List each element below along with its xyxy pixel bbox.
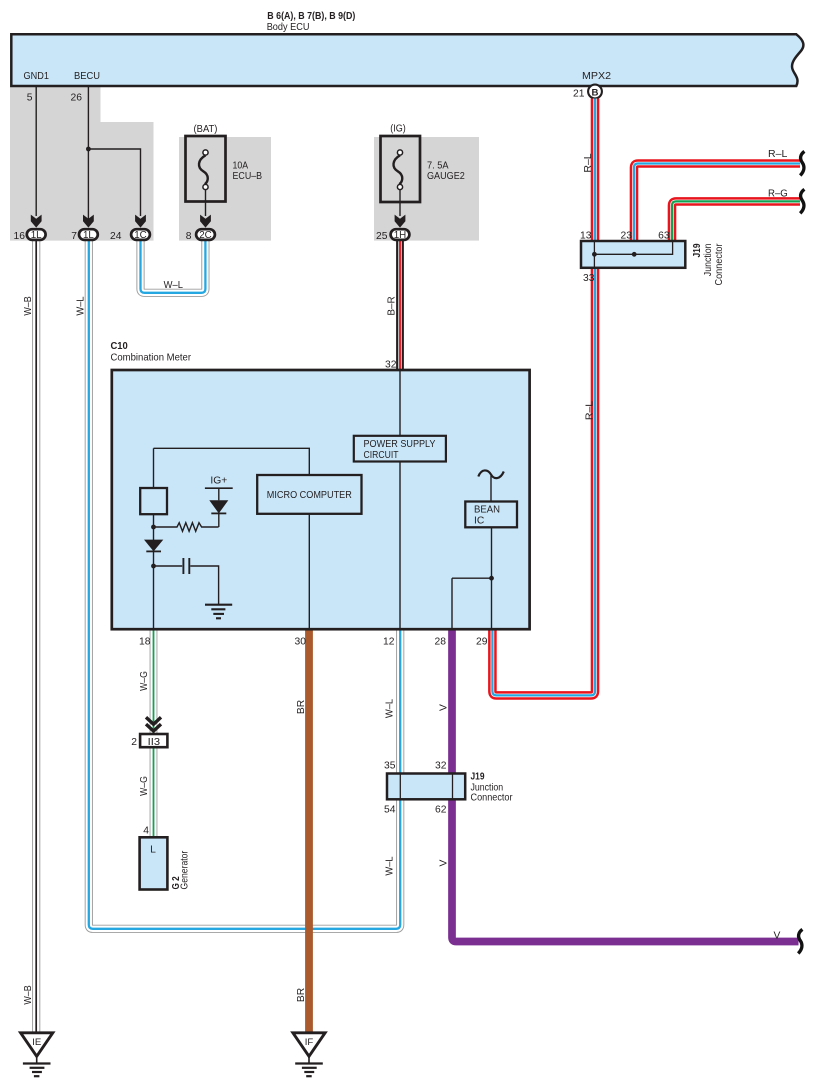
wire B-R from 1H to meter pin 32 xyxy=(396,240,404,370)
svg-text:POWER SUPPLY: POWER SUPPLY xyxy=(364,439,436,450)
junction connector J19 lower box xyxy=(387,774,465,800)
wire branch BECU to 1C xyxy=(88,149,140,216)
arrowhead into 1L(16) xyxy=(31,215,42,228)
svg-text:GND1: GND1 xyxy=(24,71,50,82)
svg-text:R–G: R–G xyxy=(768,189,788,200)
wire break V right edge xyxy=(798,929,802,953)
wire GND1 pin5 to 1L xyxy=(35,87,37,216)
arrowhead into 2C(8) xyxy=(200,215,211,228)
svg-text:(IG): (IG) xyxy=(390,124,406,135)
wire BR meter pin30 to ground IF xyxy=(305,630,313,1032)
node B (MPX2 connector circle) xyxy=(588,85,602,99)
svg-text:V: V xyxy=(439,704,450,711)
connector oval 1C(24) xyxy=(131,229,150,240)
ground IE xyxy=(21,1033,53,1057)
svg-text:R–L: R–L xyxy=(584,401,595,421)
arrowhead into 1H(25) xyxy=(395,215,406,228)
connector oval 1H(25) xyxy=(391,229,410,240)
connector II3 box xyxy=(140,734,167,747)
wire R-L from J19 pin23 to right edge xyxy=(634,164,800,242)
internal wire BEAN IC to pins 28/29 xyxy=(491,527,493,629)
svg-text:29: 29 xyxy=(476,637,488,648)
connector oval 2C(8) xyxy=(196,229,215,240)
svg-text:63: 63 xyxy=(658,231,670,242)
svg-text:B–R: B–R xyxy=(386,296,397,315)
ground inside meter xyxy=(205,604,232,606)
wire fuse ECU-B to 2C xyxy=(205,190,207,216)
svg-text:W–G: W–G xyxy=(139,776,150,796)
svg-text:J19: J19 xyxy=(692,243,703,257)
fuse ECU-B box xyxy=(186,136,226,202)
fuse GAUGE2 box xyxy=(381,136,421,202)
svg-text:21: 21 xyxy=(573,89,585,100)
junction dot capacitor xyxy=(151,564,156,569)
wire break R-L right edge xyxy=(800,151,804,175)
svg-text:V: V xyxy=(774,931,781,942)
internal wire lamp to pin18 xyxy=(153,514,155,629)
svg-text:IC: IC xyxy=(474,515,485,526)
svg-text:BEAN: BEAN xyxy=(474,505,500,516)
svg-text:W–L: W–L xyxy=(164,280,184,291)
J19 upper internal bus xyxy=(594,241,672,254)
junction dot J19 pin13 xyxy=(592,252,597,257)
svg-text:IG+: IG+ xyxy=(210,476,227,487)
power supply circuit box xyxy=(354,436,446,462)
svg-text:1L: 1L xyxy=(31,230,42,241)
svg-text:BECU: BECU xyxy=(74,71,100,82)
IG+ rail bar xyxy=(205,487,233,489)
arrowhead into 1L(7) xyxy=(83,215,94,228)
svg-text:25: 25 xyxy=(376,231,388,242)
svg-text:30: 30 xyxy=(295,637,307,648)
generator G2 box xyxy=(140,837,168,889)
fuse GAUGE2 element xyxy=(393,155,402,184)
svg-text:2C: 2C xyxy=(199,230,212,241)
svg-text:16: 16 xyxy=(14,231,26,242)
svg-text:W–L: W–L xyxy=(75,296,86,316)
svg-text:32: 32 xyxy=(385,360,397,371)
junction dot lamp/diode xyxy=(151,525,156,530)
svg-text:54: 54 xyxy=(384,805,396,816)
svg-text:1L: 1L xyxy=(83,230,94,241)
svg-text:12: 12 xyxy=(383,637,395,648)
svg-text:W–L: W–L xyxy=(385,699,396,719)
svg-text:V: V xyxy=(439,859,450,866)
svg-text:Body ECU: Body ECU xyxy=(267,22,310,33)
svg-text:IF: IF xyxy=(305,1037,314,1048)
svg-text:Junction: Junction xyxy=(703,243,714,276)
svg-text:CIRCUIT: CIRCUIT xyxy=(364,450,400,461)
svg-text:7: 7 xyxy=(71,231,77,242)
svg-text:Connector: Connector xyxy=(471,793,513,804)
svg-text:R–L: R–L xyxy=(583,153,594,173)
svg-text:J19: J19 xyxy=(471,772,485,783)
svg-text:Combination Meter: Combination Meter xyxy=(111,353,192,364)
J19 upper internal pass-through pin13-33 xyxy=(593,241,595,268)
internal wire micro computer to pin30 xyxy=(308,514,310,629)
svg-text:62: 62 xyxy=(435,805,447,816)
wire W-L link 1C to 2C xyxy=(141,240,206,293)
svg-text:W–B: W–B xyxy=(23,296,34,315)
svg-text:28: 28 xyxy=(435,637,447,648)
wire R-G from J19 pin63 to right edge xyxy=(672,201,800,241)
connector shading BAT fuse area xyxy=(179,137,271,241)
connector oval 1L(16) xyxy=(27,229,46,240)
wire R-L from node B down to J19 pin13 xyxy=(591,99,600,242)
svg-text:13: 13 xyxy=(580,231,592,242)
svg-text:(BAT): (BAT) xyxy=(194,124,218,135)
svg-text:BR: BR xyxy=(296,988,307,1002)
wire fuse GAUGE2 to 1H xyxy=(399,190,401,216)
diode D1 xyxy=(218,488,220,500)
wire W-B from 1L to ground IE xyxy=(32,240,40,1032)
svg-text:L: L xyxy=(150,844,156,855)
svg-text:BR: BR xyxy=(296,700,307,714)
svg-text:B 6(A), B 7(B), B 9(D): B 6(A), B 7(B), B 9(D) xyxy=(267,11,355,22)
svg-text:W–L: W–L xyxy=(385,856,396,876)
svg-text:W–B: W–B xyxy=(23,985,34,1004)
antenna symbol above BEAN IC xyxy=(478,470,504,478)
junction dot BEAN output xyxy=(489,576,494,581)
junction dot J19 pin23 xyxy=(632,252,637,257)
svg-text:R–L: R–L xyxy=(768,149,788,160)
connector II3 chevrons xyxy=(146,717,161,724)
svg-text:4: 4 xyxy=(143,826,149,837)
svg-text:II3: II3 xyxy=(148,737,161,748)
junction dot BECU branch xyxy=(86,147,91,152)
svg-text:23: 23 xyxy=(621,231,633,242)
svg-text:W–G: W–G xyxy=(139,671,150,691)
wire V meter pin28 through J19 to right edge xyxy=(452,630,799,942)
svg-text:5: 5 xyxy=(27,93,33,104)
svg-text:8: 8 xyxy=(186,231,192,242)
svg-text:MPX2: MPX2 xyxy=(582,71,611,82)
internal wire to indicator lamp xyxy=(153,448,155,488)
J19 lower internal pass-through 32-62 xyxy=(452,774,454,800)
Body ECU block xyxy=(11,34,803,86)
svg-text:1H: 1H xyxy=(394,230,407,241)
svg-text:33: 33 xyxy=(583,273,595,284)
arrowhead into 1C(24) xyxy=(135,215,146,228)
wire BECU pin26 to 1L xyxy=(87,87,89,222)
indicator lamp square xyxy=(140,488,167,514)
svg-text:2: 2 xyxy=(131,737,137,748)
internal wire lamp rail to micro computer xyxy=(154,448,310,475)
micro computer U1 xyxy=(257,475,361,514)
fuse ECU-B element xyxy=(199,155,208,184)
internal wire pin32 to pin12 xyxy=(399,370,401,629)
connector oval 1L(7) xyxy=(79,229,98,240)
wire W-G II3 to G2 xyxy=(150,747,158,838)
svg-text:35: 35 xyxy=(384,761,396,772)
wire W-G meter pin18 to II3 xyxy=(150,630,158,735)
ground IF xyxy=(293,1033,325,1057)
svg-text:24: 24 xyxy=(110,231,122,242)
diode D2 xyxy=(144,540,163,552)
combination meter box C10 xyxy=(112,370,530,629)
svg-text:26: 26 xyxy=(71,93,83,104)
svg-text:Connector: Connector xyxy=(714,243,725,285)
svg-text:B: B xyxy=(592,87,599,98)
connector shading IG fuse area xyxy=(374,137,479,241)
wire W-L from 1L(7) down and across to J19 xyxy=(89,240,400,929)
svg-text:1C: 1C xyxy=(134,230,147,241)
junction connector J19 upper box xyxy=(581,241,685,268)
svg-text:10A: 10A xyxy=(233,161,249,172)
svg-text:ECU–B: ECU–B xyxy=(233,171,263,182)
BEAN IC box xyxy=(465,502,517,528)
capacitor C1 xyxy=(154,565,183,567)
svg-text:C10: C10 xyxy=(111,341,129,352)
resistor R1 xyxy=(154,523,219,532)
svg-text:18: 18 xyxy=(139,637,151,648)
J19 lower internal pass-through 35-54 xyxy=(399,774,401,800)
wire break R-G right edge xyxy=(800,189,804,213)
svg-text:GAUGE2: GAUGE2 xyxy=(427,171,465,182)
connector shading GND1/BECU area xyxy=(10,87,154,241)
svg-text:MICRO COMPUTER: MICRO COMPUTER xyxy=(267,490,352,501)
svg-text:IE: IE xyxy=(32,1037,41,1048)
wire R-L from J19 pin33 down and left to meter pin 29 xyxy=(492,267,595,695)
svg-text:Generator: Generator xyxy=(180,850,191,889)
svg-text:32: 32 xyxy=(435,761,447,772)
